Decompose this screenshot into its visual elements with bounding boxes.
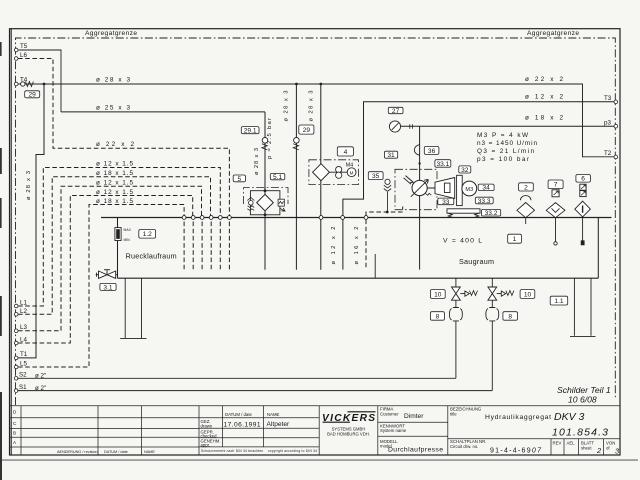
flex coupling 8 at S2 xyxy=(449,308,462,379)
Aggregatgrenze boundary line xyxy=(16,38,616,405)
junction circle return 3 xyxy=(200,216,204,220)
port L1 xyxy=(14,299,27,308)
svg-text:M3 P = 4 kW: M3 P = 4 kW xyxy=(477,132,529,139)
wire return stub 1 into tank xyxy=(183,222,185,270)
svg-text:L3: L3 xyxy=(20,324,27,331)
label box 34 xyxy=(478,184,494,192)
svg-text:33.1: 33.1 xyxy=(436,161,449,168)
tank outline xyxy=(101,218,612,279)
drain valve 3.1 xyxy=(96,270,118,279)
spec text block xyxy=(477,132,537,163)
wire riser into tank xyxy=(295,218,297,270)
wire ø25x3 riser through filter 5 xyxy=(264,112,266,218)
svg-text:7: 7 xyxy=(554,182,558,189)
breather 6 xyxy=(575,184,591,245)
label box 1.2 xyxy=(139,230,156,239)
svg-text:NAME: NAME xyxy=(144,450,155,454)
shutoff valve 10 at S2 xyxy=(452,278,478,307)
base plate 33.2 xyxy=(447,209,480,217)
svg-text:33.3: 33.3 xyxy=(478,198,491,205)
wire filter 5 outlet into tank xyxy=(264,218,266,270)
svg-text:ø 28 x 3: ø 28 x 3 xyxy=(254,148,260,175)
customer / model column xyxy=(378,406,620,455)
shutoff valve 10 at S1 xyxy=(488,278,514,307)
svg-text:Ruecklaufraum: Ruecklaufraum xyxy=(126,251,177,260)
wire T4 branch down to T1 xyxy=(18,84,44,358)
wire L3 ø12x1.5 dashed xyxy=(18,186,202,331)
svg-text:BAD HOMBURG VDH.: BAD HOMBURG VDH. xyxy=(327,431,370,436)
wire ø12x2 from T3 to tank xyxy=(343,102,614,218)
svg-text:3.1: 3.1 xyxy=(103,284,112,291)
junction filter 5 top xyxy=(264,189,267,192)
svg-text:B: B xyxy=(13,431,16,436)
GEZ sub-table labels xyxy=(201,412,280,448)
svg-text:ø 12 x 1.5: ø 12 x 1.5 xyxy=(96,189,133,196)
svg-text:ø 18 x 1.5: ø 18 x 1.5 xyxy=(96,170,133,177)
sheet numbers xyxy=(596,446,620,456)
port T1 xyxy=(14,351,27,360)
svg-text:NAME: NAME xyxy=(267,412,280,417)
svg-text:Hydraulikaggregat: Hydraulikaggregat xyxy=(485,414,551,421)
port L6 xyxy=(14,52,27,61)
svg-text:36: 36 xyxy=(428,148,436,155)
svg-text:10: 10 xyxy=(524,291,532,298)
label box 1 xyxy=(508,234,522,243)
coupling 33.1 xyxy=(427,178,455,199)
label box 7 xyxy=(548,180,563,189)
port T3 xyxy=(604,95,618,104)
svg-text:T5: T5 xyxy=(20,43,28,50)
svg-text:29: 29 xyxy=(303,127,311,134)
wire T5 to ø25x3 line xyxy=(18,50,61,112)
wire ø16x2 into tank dashed xyxy=(365,220,367,270)
wire ø16x2 pilot dashed xyxy=(366,207,403,217)
svg-text:System name: System name xyxy=(380,428,407,433)
label box 31 xyxy=(384,151,397,159)
svg-text:MIN: MIN xyxy=(124,238,131,242)
wire ø12x2 into tank xyxy=(342,218,344,270)
svg-text:V = 400 L: V = 400 L xyxy=(443,237,482,244)
junction circle return 4 xyxy=(209,216,213,220)
wire return stub 2 into tank xyxy=(192,222,194,270)
label box 8 xyxy=(503,312,518,321)
filter 5 bypass check valve xyxy=(247,198,254,211)
junction circle filter4 line xyxy=(319,216,323,220)
label box 33.2 xyxy=(481,209,500,217)
junction circle return 6 xyxy=(228,216,232,220)
hose 36 xyxy=(414,145,419,156)
wire pump riser xyxy=(419,126,421,269)
port T2 xyxy=(604,150,618,159)
suction check valve 35 xyxy=(384,179,391,191)
filler breather 7 xyxy=(546,190,565,245)
label box 29 xyxy=(25,91,40,99)
wire return stub 4 into tank xyxy=(210,222,212,270)
svg-text:29: 29 xyxy=(29,92,37,99)
level indicator 1.2 xyxy=(115,228,132,243)
svg-text:8: 8 xyxy=(436,313,440,320)
svg-text:4: 4 xyxy=(344,149,348,156)
label box 10 xyxy=(520,290,535,299)
air breather 2 xyxy=(517,196,535,224)
svg-text:5: 5 xyxy=(237,176,241,183)
port S2 xyxy=(14,372,27,381)
return filter 5 element xyxy=(257,194,274,210)
filter unit 4 enclosure xyxy=(309,160,359,185)
svg-text:Aggregatgrenze: Aggregatgrenze xyxy=(85,30,137,37)
port S1 xyxy=(14,384,27,392)
svg-text:Q3 = 21 L/min: Q3 = 21 L/min xyxy=(477,148,534,155)
svg-text:appr.: appr. xyxy=(201,443,211,448)
svg-text:31: 31 xyxy=(387,152,395,159)
svg-text:29.1: 29.1 xyxy=(244,128,257,135)
label box 32 xyxy=(459,166,471,174)
svg-text:p3: p3 xyxy=(604,119,611,126)
junction pilot line xyxy=(386,211,389,214)
label box 36 xyxy=(424,147,439,155)
svg-text:ø 18 x 1.5: ø 18 x 1.5 xyxy=(96,198,133,205)
svg-text:L2: L2 xyxy=(20,308,27,315)
label box 1.1 xyxy=(550,296,568,305)
wire filter 4 to pump M4 xyxy=(329,171,347,173)
svg-text:101.854.3: 101.854.3 xyxy=(552,427,608,439)
svg-text:T3: T3 xyxy=(604,95,612,102)
svg-text:Customer: Customer xyxy=(380,411,399,416)
label box 3.1 xyxy=(100,283,116,291)
return filter 5 enclosure xyxy=(244,188,289,204)
svg-text:p3 = 100 bar: p3 = 100 bar xyxy=(477,156,530,163)
junction filter 5 bottom xyxy=(264,213,267,216)
check valve 29.1 xyxy=(262,138,268,150)
junction circle return 5 xyxy=(218,216,222,220)
svg-text:Schutzvermerk nach DIN 34 beac: Schutzvermerk nach DIN 34 beachten copyr… xyxy=(201,449,317,453)
return filter 5 bypass loop xyxy=(250,191,280,215)
svg-text:L6: L6 xyxy=(20,52,27,59)
svg-text:S1: S1 xyxy=(19,384,27,391)
wire ø28x3 riser filter 4 xyxy=(320,84,322,218)
handwritten note Schilder Teil 1 xyxy=(557,385,611,405)
revision table bottom row labels xyxy=(57,450,155,454)
wire check valve 35 drop xyxy=(387,192,389,212)
filter 4 element xyxy=(313,164,330,181)
svg-text:Schilder Teil 1: Schilder Teil 1 xyxy=(557,385,611,395)
port p3 xyxy=(604,119,618,128)
label box 33.1 xyxy=(435,160,451,168)
svg-text:MAX: MAX xyxy=(124,228,132,232)
port T4 xyxy=(14,77,27,86)
label box 5.1 xyxy=(270,173,285,181)
svg-text:T2: T2 xyxy=(604,150,612,157)
tank leg left xyxy=(120,278,146,338)
svg-text:34: 34 xyxy=(482,185,490,192)
svg-text:33.2: 33.2 xyxy=(485,210,498,217)
svg-text:M: M xyxy=(350,170,354,175)
svg-text:32: 32 xyxy=(461,167,469,174)
junction circle ø16x2 xyxy=(364,216,368,220)
motor M4 xyxy=(346,162,356,176)
svg-text:5.1: 5.1 xyxy=(273,174,282,181)
wire S2 suction line xyxy=(17,377,456,379)
label box 6 xyxy=(576,175,591,183)
motor M3 xyxy=(462,181,477,196)
svg-text:35: 35 xyxy=(372,173,380,180)
svg-text:AEL: AEL xyxy=(567,441,576,446)
wire T4 ø28x3 main line to T2 xyxy=(18,84,614,157)
port L4 xyxy=(14,336,27,345)
label box 35 xyxy=(368,172,383,180)
wire return stub 6 into tank xyxy=(228,222,230,270)
junction riser 1 xyxy=(295,83,298,86)
label box 33.3 xyxy=(475,197,493,205)
svg-text:n3 = 1450 U/min: n3 = 1450 U/min xyxy=(477,140,537,147)
svg-text:S2: S2 xyxy=(19,372,27,379)
svg-text:L4: L4 xyxy=(20,336,27,343)
svg-text:6: 6 xyxy=(581,176,585,183)
gear pump 4 xyxy=(336,166,342,178)
wire L5 ø18x1.5 dashed xyxy=(18,205,184,368)
tank leg right xyxy=(570,278,596,336)
wire L1 ø12x1.5 dashed xyxy=(18,168,220,307)
motor mount plate 32 xyxy=(457,175,463,205)
wire return stub 5 into tank xyxy=(219,222,221,270)
svg-text:1.2: 1.2 xyxy=(143,231,152,238)
port L5 xyxy=(14,360,27,368)
svg-text:Dimter: Dimter xyxy=(404,413,424,420)
svg-text:8: 8 xyxy=(508,313,512,320)
svg-text:1: 1 xyxy=(513,236,517,243)
label box 29.1 xyxy=(241,127,259,135)
pressure gauge 27 xyxy=(389,121,412,132)
flex coupling 8 at S1 xyxy=(486,308,499,391)
label box 8 xyxy=(430,312,444,321)
junction T4 branch xyxy=(43,83,46,86)
svg-text:drawn: drawn xyxy=(201,424,213,429)
svg-text:1.1: 1.1 xyxy=(554,298,563,305)
label box 2 xyxy=(519,183,534,192)
drawn date and name xyxy=(224,421,291,428)
svg-text:2: 2 xyxy=(524,184,528,191)
port L3 xyxy=(14,324,27,333)
wire ø18x2 pressure line to p3 xyxy=(401,125,615,127)
wire return stub 3 into tank xyxy=(201,222,203,270)
svg-text:DATUM / date: DATUM / date xyxy=(225,412,253,417)
label box 33 xyxy=(438,198,454,206)
title block: revision table xyxy=(10,406,621,455)
wire filter 4 line into tank xyxy=(320,218,322,270)
svg-text:10: 10 xyxy=(434,291,442,298)
junction riser 2 xyxy=(319,83,322,86)
svg-text:title: title xyxy=(450,411,457,416)
pump group enclosure 31 xyxy=(395,169,437,209)
VICKERS logo block xyxy=(322,412,376,437)
svg-text:p = 2.5 bar: p = 2.5 bar xyxy=(267,118,273,159)
svg-text:DATUM / date: DATUM / date xyxy=(104,450,128,454)
svg-text:91-4-4-6907: 91-4-4-6907 xyxy=(490,448,542,455)
svg-text:L5: L5 xyxy=(20,360,27,367)
label box 10 xyxy=(430,290,445,299)
svg-text:M3: M3 xyxy=(465,187,473,193)
wire L2 ø18x1.5 dashed xyxy=(18,177,211,315)
svg-text:T1: T1 xyxy=(20,351,28,358)
label box 5 xyxy=(233,175,245,183)
svg-text:M4: M4 xyxy=(346,162,354,168)
label box 4 xyxy=(337,147,353,156)
svg-text:Saugraum: Saugraum xyxy=(459,257,494,266)
svg-text:sheet: sheet xyxy=(581,446,592,451)
wire L6 ø22x2 dashed xyxy=(18,59,229,217)
svg-text:17.06.1991: 17.06.1991 xyxy=(224,421,261,428)
svg-text:2: 2 xyxy=(596,446,601,455)
junction circle return 1 xyxy=(182,216,186,220)
svg-text:Aggregatgrenze: Aggregatgrenze xyxy=(527,30,579,37)
svg-text:DKV 3: DKV 3 xyxy=(554,411,585,423)
junction circle return 2 xyxy=(191,216,195,220)
svg-text:ø 12 x 1.5: ø 12 x 1.5 xyxy=(96,161,133,168)
svg-text:Altpeter: Altpeter xyxy=(267,421,291,428)
svg-text:10 6/08: 10 6/08 xyxy=(568,395,597,405)
customer fields text xyxy=(380,407,615,451)
svg-text:L1: L1 xyxy=(20,299,27,306)
junction pump riser xyxy=(418,162,420,164)
svg-text:27: 27 xyxy=(392,108,400,115)
port L2 xyxy=(14,308,27,316)
wire L4 ø12x1.5 dashed xyxy=(18,196,193,344)
tank baffle xyxy=(374,254,376,278)
wire ø25x3 horizontal xyxy=(61,111,265,113)
svg-text:ø 12 x 1.5: ø 12 x 1.5 xyxy=(96,180,133,187)
check valve 29 (T4) xyxy=(21,82,34,87)
svg-text:Circuit drw. no.: Circuit drw. no. xyxy=(450,444,478,449)
label box 29 xyxy=(299,125,314,134)
svg-text:AENDERUNG / revision: AENDERUNG / revision xyxy=(57,450,98,454)
svg-text:33: 33 xyxy=(442,199,450,206)
junction circle ø12x2 xyxy=(341,216,345,220)
svg-text:checked: checked xyxy=(201,433,218,438)
svg-text:Durchlaufpresse: Durchlaufpresse xyxy=(388,447,443,454)
wire ø28x3 riser check valve 29 xyxy=(295,84,297,218)
label box 27 xyxy=(388,107,403,115)
wire S1 suction line xyxy=(17,390,492,392)
check valve 29 (riser) xyxy=(293,138,299,150)
filter 5 clogging indicator xyxy=(278,199,285,211)
svg-text:REV: REV xyxy=(553,441,562,446)
revision table letters xyxy=(13,410,17,446)
pump P3 xyxy=(404,176,432,197)
port T5 xyxy=(14,43,27,52)
